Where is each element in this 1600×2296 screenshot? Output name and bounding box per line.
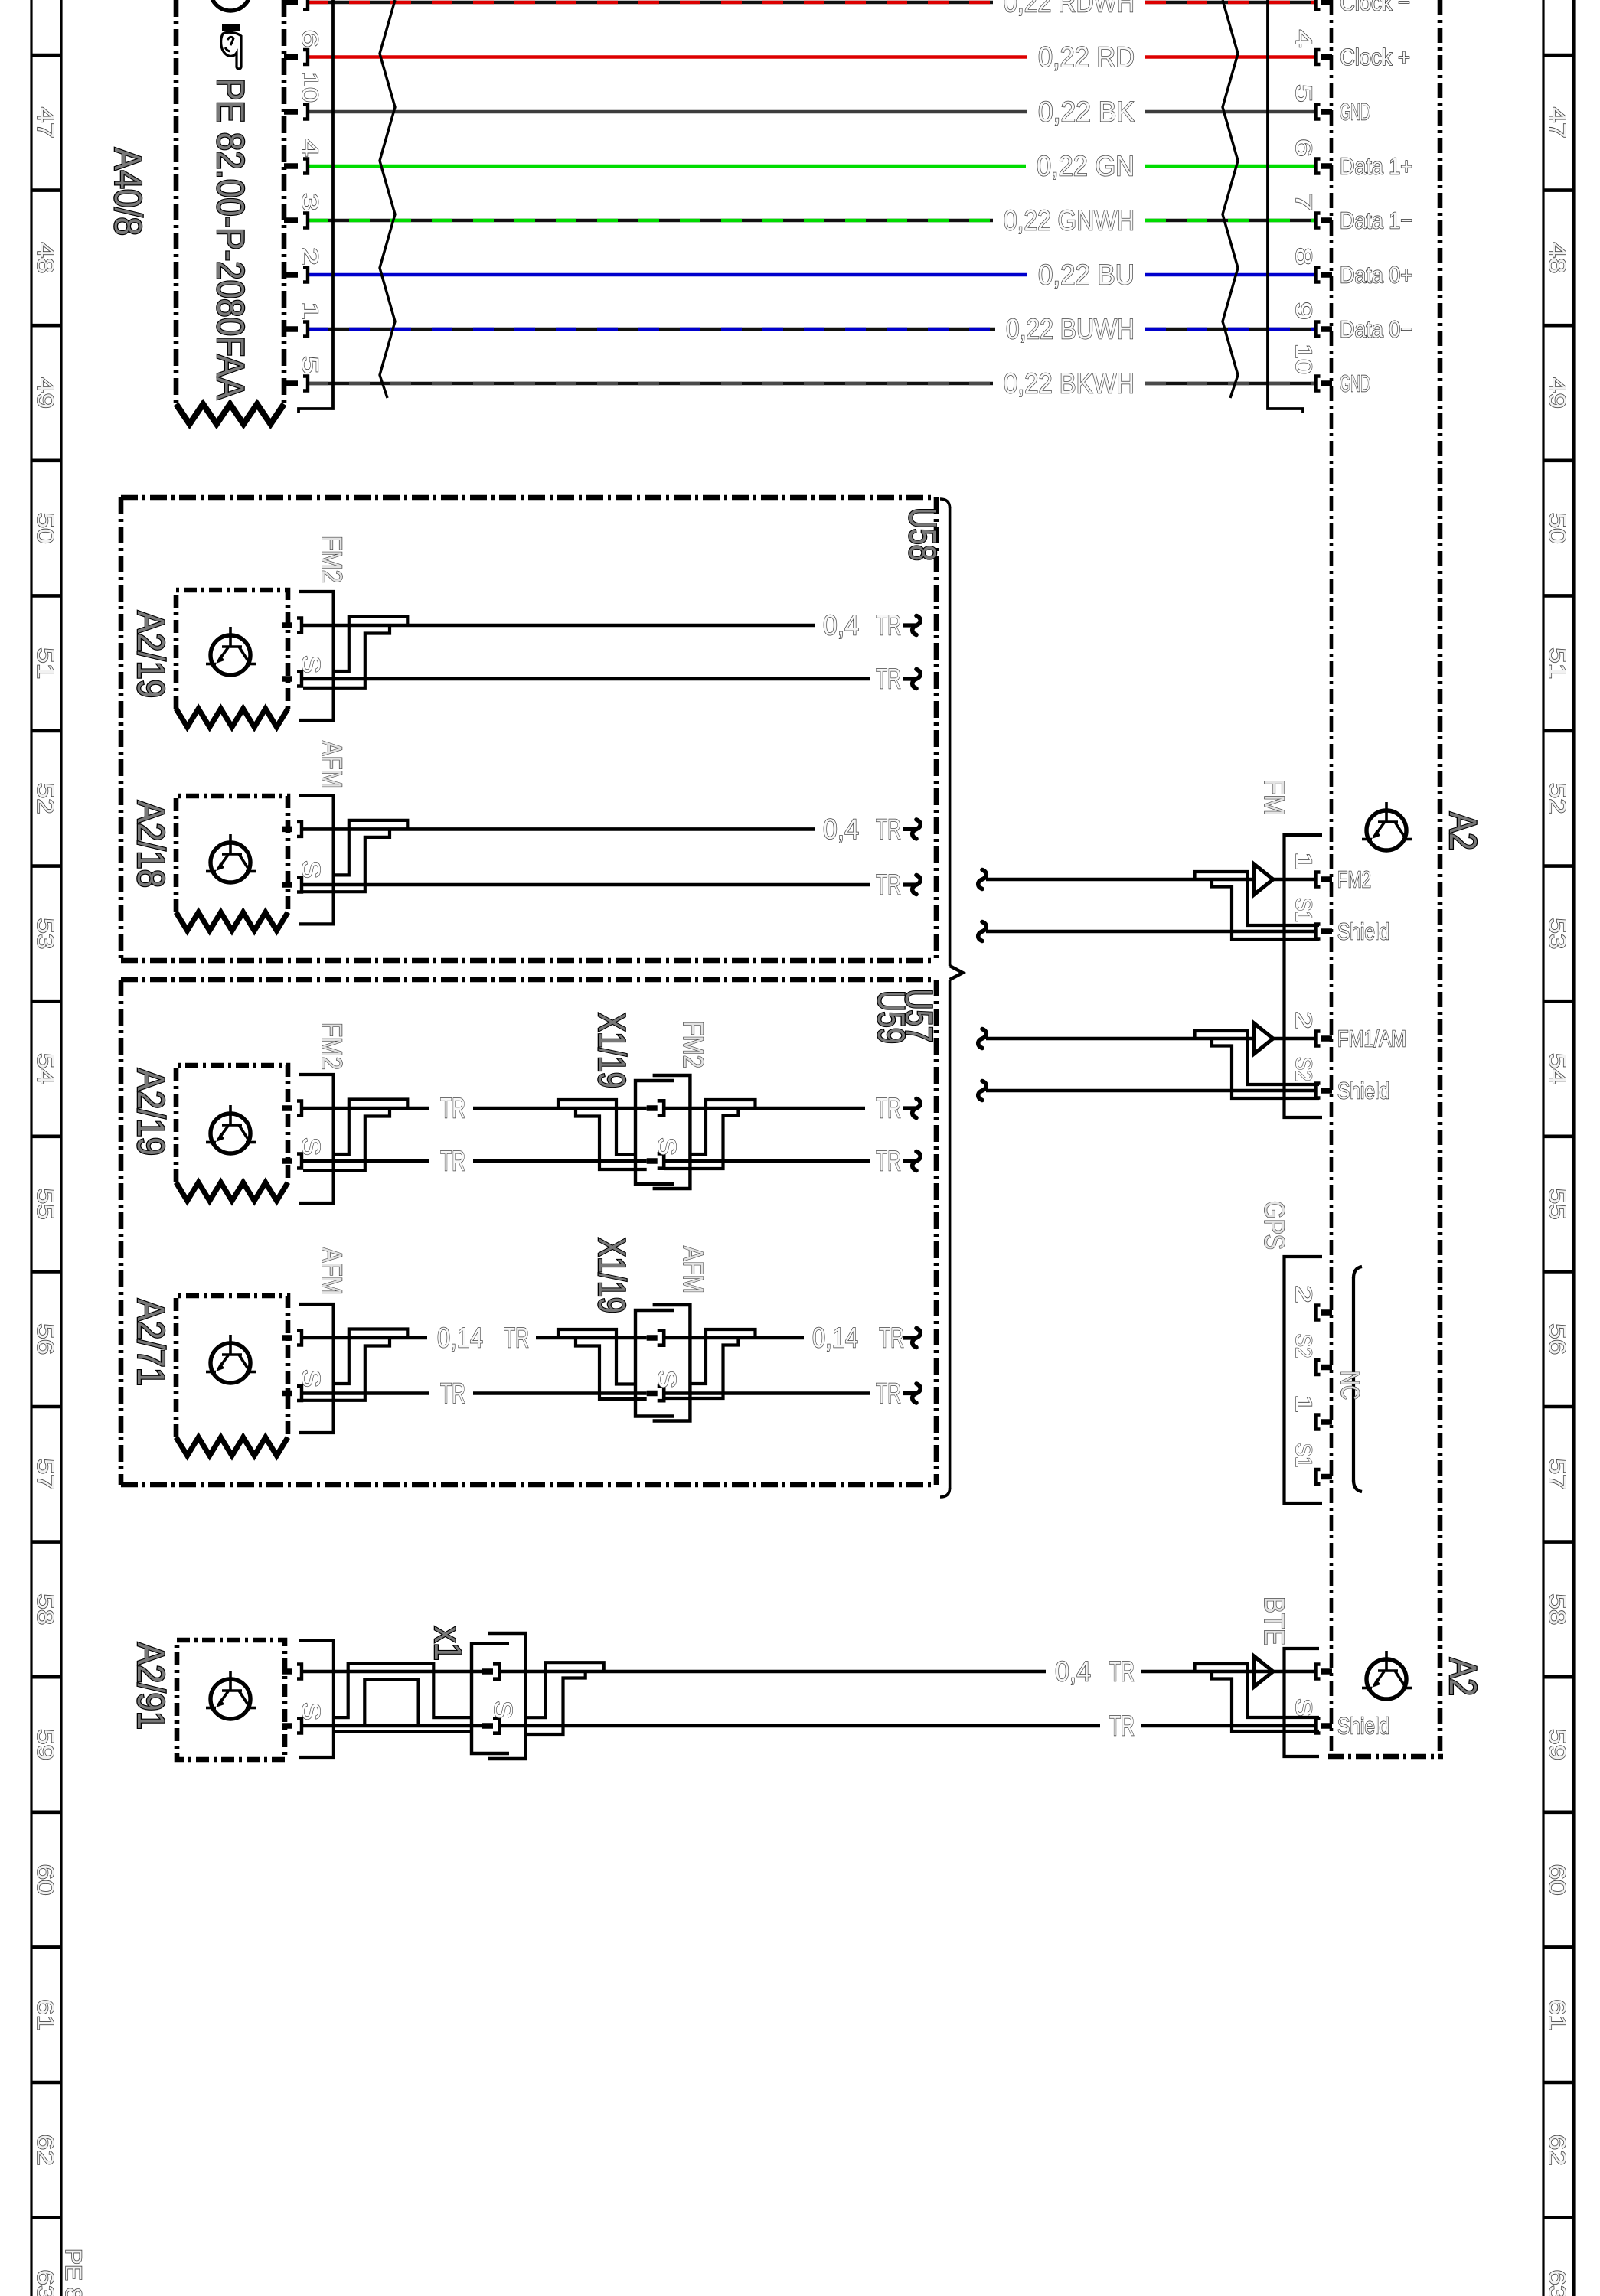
wire 0,14 TR segment 2 [664, 1336, 804, 1340]
svg-text:50: 50 [1544, 513, 1571, 544]
svg-text:GND: GND [1340, 99, 1370, 126]
wire 0,22 BKWH (GND) [308, 368, 1316, 400]
svg-text:51: 51 [32, 647, 59, 679]
svg-text:52: 52 [1544, 783, 1571, 814]
svg-text:TR: TR [876, 1093, 901, 1124]
svg-text:TR: TR [440, 1093, 465, 1124]
wire 0,22 BK (GND) [308, 96, 1316, 128]
svg-text:Data 0−: Data 0− [1340, 316, 1412, 343]
svg-text:Data 0+: Data 0+ [1340, 262, 1412, 289]
wire end squiggle [903, 882, 916, 886]
pin S of A2/91 [282, 1723, 292, 1729]
wire end squiggle [903, 677, 916, 680]
wire TR shield from x1 to Shield pin [500, 1724, 1101, 1728]
svg-text:TR: TR [876, 664, 901, 695]
pin A40/8 connector (left) for GND [284, 109, 298, 115]
svg-text:Clock +: Clock + [1340, 44, 1410, 70]
svg-text:0,22 RDWH: 0,22 RDWH [1004, 0, 1135, 18]
wire 0,22 BUWH (Data 0−) [308, 314, 1316, 345]
svg-text:47: 47 [1544, 107, 1571, 139]
svg-text:10: 10 [297, 72, 322, 103]
svg-text:FM2: FM2 [1337, 866, 1371, 893]
svg-text:48: 48 [1544, 242, 1571, 273]
pin A2 connector (right) for Data 0+ [1321, 272, 1333, 278]
svg-text:55: 55 [32, 1189, 59, 1220]
shield wrap motif A2/18 [334, 820, 408, 876]
svg-text:FM2: FM2 [316, 1022, 348, 1070]
svg-text:TR: TR [876, 1146, 901, 1177]
svg-text:A2: A2 [1442, 812, 1484, 850]
svg-text:1: 1 [297, 302, 322, 320]
wire to A2 FM pin S1 (Shield) [978, 922, 1316, 941]
svg-text:57: 57 [32, 1459, 59, 1490]
svg-text:5: 5 [1291, 84, 1316, 103]
svg-text:U58: U58 [901, 507, 944, 561]
svg-text:57: 57 [1544, 1459, 1571, 1490]
svg-text:S: S [489, 1701, 518, 1719]
svg-text:63: 63 [1544, 2269, 1571, 2296]
svg-text:7: 7 [1291, 193, 1316, 211]
wire TR shield from A2/19 [302, 677, 870, 681]
svg-text:0,22 BUWH: 0,22 BUWH [1006, 314, 1135, 345]
wire TR shield segment 2 [664, 1391, 870, 1395]
svg-text:9: 9 [1291, 302, 1316, 320]
svg-text:53: 53 [32, 918, 59, 949]
wire 0,14 TR segment 1 [302, 1336, 427, 1340]
wire 0,4 TR from A2/19 [302, 624, 815, 628]
pin A40/8 connector (left) for Clock − [284, 0, 298, 5]
svg-text:S: S [297, 1369, 325, 1388]
component A2/19 roof antenna (in U58) [176, 590, 288, 709]
wire to A2 FM pin S2 (Shield) [978, 1081, 1316, 1101]
svg-text:0,22 RD: 0,22 RD [1038, 41, 1135, 73]
svg-text:10: 10 [1291, 344, 1316, 374]
svg-text:61: 61 [32, 1999, 59, 2030]
antenna symbol A2/91 [211, 1679, 250, 1719]
svg-text:A2/19: A2/19 [129, 1068, 172, 1156]
svg-text:Shield: Shield [1337, 1078, 1389, 1104]
svg-text:51: 51 [1544, 647, 1571, 679]
svg-text:S: S [297, 1702, 325, 1720]
pin S of A2/19 (U57) [282, 1158, 292, 1164]
component A2/19 roof antenna (in U57) [176, 1065, 288, 1182]
svg-text:54: 54 [32, 1053, 59, 1084]
svg-text:TR: TR [440, 1378, 465, 1409]
pin 1 on A2 [1321, 876, 1333, 882]
A2 side cable sheath zigzag [1223, 0, 1238, 398]
wire 0,22 RD (Clock +) [308, 41, 1316, 73]
svg-text:S: S [297, 860, 325, 879]
svg-text:1: 1 [1291, 852, 1316, 870]
svg-text:TR: TR [876, 610, 901, 641]
svg-text:Data 1+: Data 1+ [1340, 153, 1412, 180]
svg-text:GPS: GPS [1259, 1201, 1290, 1250]
antenna amplifier symbol in A2 (upper) [1367, 810, 1406, 850]
wire 0,22 RDWH (Clock −) [308, 0, 1316, 18]
svg-text:Data 1−: Data 1− [1340, 207, 1412, 234]
svg-text:TR: TR [876, 1378, 901, 1409]
svg-text:S1: S1 [1291, 1443, 1316, 1468]
page frame left border [30, 0, 32, 2296]
motifs around X1/19 [558, 1100, 635, 1155]
svg-text:53: 53 [1544, 918, 1571, 949]
svg-text:2: 2 [297, 247, 322, 266]
antenna amplifier symbol in A2 (lower) [1367, 1659, 1406, 1699]
wire TR FM2 segment 2 [664, 1107, 865, 1110]
svg-text:0,22 BU: 0,22 BU [1038, 259, 1135, 291]
GPS pin S1 (not connected) [1321, 1474, 1333, 1480]
GPS connector group bracket on A2 [1285, 1257, 1323, 1503]
pin A2 connector (right) for Clock − [1321, 0, 1333, 5]
svg-text:A2/71: A2/71 [129, 1299, 172, 1386]
pin S of A2/18 [282, 882, 292, 888]
pin A40/8 connector (left) for Data 1− [284, 217, 298, 223]
svg-text:1: 1 [1291, 1394, 1316, 1413]
svg-text:3: 3 [297, 193, 322, 211]
wire TR shield segment 1 [302, 1159, 429, 1163]
svg-text:2: 2 [1291, 1285, 1316, 1303]
motifs around X1/19 [558, 1329, 635, 1384]
svg-text:0,22 BK: 0,22 BK [1038, 96, 1135, 128]
svg-text:62: 62 [1544, 2135, 1571, 2166]
pin S2 on A2 [1321, 1088, 1333, 1094]
pin A40/8 connector (left) for Data 0+ [284, 272, 298, 278]
svg-text:58: 58 [32, 1593, 59, 1625]
pin A40/8 connector (left) for GND [284, 380, 298, 386]
svg-text:X1/19: X1/19 [590, 1013, 633, 1088]
svg-text:TR: TR [879, 1322, 904, 1354]
wire TR shield segment 1 [302, 1391, 429, 1395]
svg-text:S: S [653, 1370, 681, 1388]
wire to A2 FM pin 1 (FM2) [978, 870, 1316, 889]
pin BTE signal on A2 [1321, 1668, 1333, 1675]
svg-text:PE 82: PE 82 [60, 2249, 86, 2296]
svg-text:TR: TR [1109, 1711, 1135, 1742]
wire 0,22 GNWH (Data 1−) [308, 205, 1316, 236]
component A40/8 box [176, 0, 284, 424]
svg-text:TR: TR [876, 869, 901, 901]
GPS pin 1 (not connected) [1321, 1419, 1333, 1425]
shield wrap motif BTE [1195, 1664, 1320, 1717]
svg-text:FM2: FM2 [316, 536, 348, 583]
pin A2 connector (right) for Data 0− [1321, 326, 1333, 332]
svg-text:56: 56 [32, 1323, 59, 1355]
svg-text:TR: TR [1109, 1656, 1135, 1688]
connector X1/19 (AFM) [635, 1310, 674, 1417]
svg-text:NC: NC [1335, 1371, 1364, 1400]
svg-text:A2/19: A2/19 [129, 611, 172, 698]
svg-text:52: 52 [32, 783, 59, 814]
FM connector group bracket on A2 [1285, 835, 1323, 1117]
svg-text:S2: S2 [1291, 1334, 1316, 1358]
page frame right border [1542, 0, 1544, 2296]
svg-text:62: 62 [32, 2135, 59, 2166]
BTE connector group bracket on A2 [1285, 1649, 1320, 1756]
svg-text:U59: U59 [870, 990, 913, 1044]
antenna symbol at A40/8 top (cut) [211, 0, 250, 11]
wire 0,22 BU (Data 0+) [308, 259, 1316, 291]
svg-text:FM: FM [1259, 779, 1290, 816]
svg-text:S: S [653, 1137, 681, 1156]
svg-text:50: 50 [32, 513, 59, 544]
svg-text:2: 2 [1291, 1011, 1316, 1029]
svg-text:AFM: AFM [316, 741, 348, 788]
pointing hand icon [221, 24, 241, 69]
A40/8 side cable comb line [299, 0, 333, 413]
svg-text:6: 6 [1291, 139, 1316, 157]
wire TR shield segment 2 [664, 1159, 870, 1163]
svg-text:PE 82.00-P-2080FAA: PE 82.00-P-2080FAA [209, 78, 252, 400]
pin S of A2/71 [282, 1391, 292, 1397]
svg-text:S1: S1 [1291, 898, 1316, 922]
svg-text:TR: TR [504, 1322, 529, 1354]
connector x1 [472, 1633, 525, 1759]
svg-text:AFM: AFM [678, 1246, 709, 1293]
A2 side cable comb line [1268, 0, 1303, 413]
svg-text:4: 4 [1291, 30, 1316, 48]
shield wrap motif [334, 1100, 408, 1155]
svg-text:0,22 GNWH: 0,22 GNWH [1004, 205, 1135, 236]
wire end squiggle [903, 623, 916, 627]
svg-text:61: 61 [1544, 1999, 1571, 2030]
component U57/U59 box (antenna amplifier) [121, 980, 936, 1485]
control unit A2 housing right line [1438, 0, 1443, 1756]
svg-text:49: 49 [1544, 377, 1571, 409]
svg-text:54: 54 [1544, 1053, 1571, 1084]
pin A40/8 connector (left) for Clock + [284, 54, 298, 60]
svg-text:S: S [297, 1137, 325, 1156]
svg-text:59: 59 [32, 1729, 59, 1760]
wire signal A2/91 to x1 [302, 1670, 493, 1674]
svg-text:X1/19: X1/19 [590, 1238, 633, 1313]
wire end squiggle [903, 827, 916, 831]
svg-text:63: 63 [32, 2269, 59, 2296]
connector X1/19 (FM2) [635, 1081, 674, 1184]
pin A2 connector (right) for GND [1321, 380, 1333, 386]
svg-text:TR: TR [876, 814, 901, 845]
svg-text:Clock −: Clock − [1340, 0, 1410, 16]
shield wrap motif [334, 1329, 408, 1384]
wire to A2 FM pin 2 (FM1/AM) [978, 1029, 1316, 1049]
component A2/18 roof antenna (in U58) [176, 796, 288, 912]
shield wrap motif FM1/S2 [1195, 1031, 1320, 1084]
wire TR FM2 segment 1 [302, 1107, 429, 1110]
shield wrap motif FM2/S1 [1195, 872, 1320, 925]
svg-text:x1: x1 [426, 1626, 469, 1661]
pin signal of A2/91 [282, 1668, 292, 1675]
pin FM2 of A2/19 [282, 622, 292, 628]
wire shield A2/91 to x1 [302, 1724, 493, 1728]
svg-text:FM2: FM2 [678, 1021, 709, 1068]
svg-text:BTE: BTE [1259, 1596, 1290, 1645]
shield wrap motif A2/19 [334, 617, 408, 672]
svg-text:0,4: 0,4 [823, 610, 859, 641]
svg-text:S2: S2 [1291, 1057, 1316, 1081]
svg-text:S: S [1291, 1698, 1316, 1717]
shield bridge motif A2/91 [334, 1664, 472, 1732]
svg-text:A40/8: A40/8 [106, 148, 149, 236]
svg-text:55: 55 [1544, 1189, 1571, 1220]
pin S (Shield) on A2 [1321, 1723, 1333, 1729]
svg-text:60: 60 [1544, 1864, 1571, 1896]
svg-text:5: 5 [297, 356, 322, 374]
GPS pin 2 (not connected) [1321, 1309, 1333, 1316]
wire 0,4 TR from A2/18 [302, 827, 815, 831]
pin A2 connector (right) for Clock + [1321, 54, 1333, 60]
pin S of A2/19 [282, 676, 292, 682]
svg-text:4: 4 [297, 139, 322, 157]
GPS pin S2 (not connected) [1321, 1365, 1333, 1371]
wire 0,22 GN (Data 1+) [308, 151, 1316, 182]
svg-text:49: 49 [32, 377, 59, 409]
svg-text:0,22 GN: 0,22 GN [1037, 151, 1135, 182]
svg-text:59: 59 [1544, 1729, 1571, 1760]
pin A40/8 connector (left) for Data 0− [284, 326, 298, 332]
pin A2 connector (right) for Data 1− [1321, 217, 1333, 223]
svg-text:0,4: 0,4 [823, 814, 859, 845]
control unit A2 housing bottom edge [1328, 1754, 1443, 1760]
pin A40/8 connector (left) for Data 1+ [284, 163, 298, 169]
shield motif right of x1 [525, 1662, 603, 1734]
svg-text:0,14: 0,14 [812, 1322, 858, 1354]
svg-text:FM1/AM: FM1/AM [1337, 1026, 1406, 1052]
wire 0,4 TR from x1 to BTE [500, 1670, 1047, 1674]
A40/8 side cable sheath zigzag [380, 0, 395, 398]
control unit A2 connector face line [1330, 0, 1334, 1756]
component A2/71 roof antenna (in U57) [176, 1296, 288, 1437]
pin 2 on A2 [1321, 1035, 1333, 1042]
component U58 box (antenna amplifier) [121, 497, 936, 960]
pin FM2 of A2/19 (U57) [282, 1105, 292, 1111]
svg-text:8: 8 [1291, 247, 1316, 266]
svg-text:Shield: Shield [1337, 918, 1389, 945]
pin S1 on A2 [1321, 928, 1333, 934]
svg-text:48: 48 [32, 242, 59, 273]
screen line along U58/U57 with chevron [940, 499, 963, 1497]
svg-text:A2/18: A2/18 [129, 801, 172, 888]
svg-text:0,4: 0,4 [1055, 1656, 1091, 1688]
svg-text:6: 6 [297, 30, 322, 48]
pin AFM of A2/18 [282, 827, 292, 833]
svg-text:S: S [297, 655, 325, 673]
svg-text:GND: GND [1340, 370, 1370, 397]
svg-text:0,22 BKWH: 0,22 BKWH [1004, 368, 1135, 400]
svg-text:56: 56 [1544, 1323, 1571, 1355]
svg-text:58: 58 [1544, 1593, 1571, 1625]
pin A2 connector (right) for Data 1+ [1321, 163, 1333, 169]
bracket at A2/91 [299, 1641, 334, 1758]
component A2/91 antenna box [177, 1640, 285, 1760]
svg-text:AFM: AFM [316, 1247, 348, 1295]
svg-text:47: 47 [32, 107, 59, 139]
svg-text:TR: TR [440, 1146, 465, 1177]
svg-text:Shield: Shield [1337, 1713, 1389, 1740]
svg-text:60: 60 [32, 1864, 59, 1896]
pin A2 connector (right) for GND [1321, 109, 1333, 115]
svg-text:A2/91: A2/91 [129, 1642, 172, 1730]
pin AFM of A2/71 [282, 1335, 292, 1341]
NC brace for GPS pins [1353, 1267, 1362, 1492]
wire TR shield from A2/18 [302, 883, 870, 887]
svg-text:0,14: 0,14 [437, 1322, 483, 1354]
svg-text:A2: A2 [1442, 1658, 1484, 1696]
